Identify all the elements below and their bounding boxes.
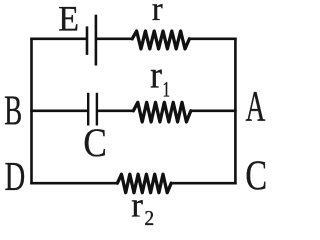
wire bottom right segment <box>170 182 237 185</box>
svg-text:1: 1 <box>163 78 171 103</box>
resistor r2 <box>117 174 171 193</box>
wire battery to resistor r <box>96 37 134 40</box>
resistor r <box>132 31 189 49</box>
capacitor C <box>88 93 97 126</box>
svg-text:D: D <box>5 153 26 200</box>
wire left vertical (B-D side) <box>30 38 33 185</box>
svg-text:C: C <box>83 121 106 166</box>
svg-text:r: r <box>150 54 162 97</box>
label r1 (middle resistor) <box>150 54 170 102</box>
wire middle left segment <box>30 110 87 113</box>
wire top right segment <box>189 37 237 40</box>
svg-text:r: r <box>152 0 163 28</box>
svg-text:E: E <box>58 0 79 39</box>
svg-text:r: r <box>131 186 143 225</box>
wire bottom left segment <box>30 182 118 185</box>
label r2 (bottom resistor) <box>131 186 154 231</box>
svg-text:C: C <box>245 153 267 200</box>
wire capacitor to resistor r1 <box>97 110 135 113</box>
battery E <box>87 15 96 66</box>
svg-text:B: B <box>4 87 22 133</box>
svg-text:A: A <box>246 83 266 131</box>
wire middle right segment <box>190 110 237 113</box>
wire right vertical (A-C side) <box>234 38 237 185</box>
svg-text:2: 2 <box>144 208 154 229</box>
resistor r1 <box>133 102 190 122</box>
wire top left segment <box>30 37 87 40</box>
